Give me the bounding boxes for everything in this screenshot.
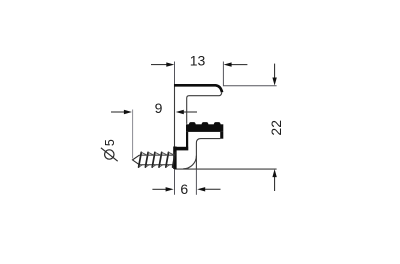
screw thread crest connectors top xyxy=(141,152,174,155)
screw body top edge xyxy=(139,154,174,156)
profile left wall outer edge xyxy=(174,84,176,169)
dimension 6 right line with arrow xyxy=(197,187,220,191)
dimension 22 bottom arrow (up) xyxy=(272,169,276,191)
screw thread crest connectors bottom xyxy=(139,164,171,167)
extension line top flange tip (vertical x=223.4) xyxy=(222,62,224,87)
gasket tooth 1 xyxy=(189,122,196,125)
profile top flange inner contour xyxy=(187,93,222,124)
profile bottom edge + extension to 22-dim (horizontal y=168.8) xyxy=(175,168,277,170)
dimension 13 right line with arrow xyxy=(224,62,248,66)
svg-text:13: 13 xyxy=(190,52,206,68)
gasket left stem xyxy=(186,132,188,147)
gasket tooth 2 xyxy=(202,122,209,125)
gasket top strip (thick) xyxy=(174,85,222,92)
dimension 9 right line with arrow xyxy=(176,110,197,114)
screw cone tip xyxy=(133,155,140,165)
gasket right lip xyxy=(220,132,223,139)
dimension 22 top arrow (down) xyxy=(272,64,276,86)
screw thread 1 xyxy=(139,152,142,167)
gasket serrated block xyxy=(186,124,223,132)
dimension 9 left line with arrow xyxy=(111,110,132,114)
screw thread 5 xyxy=(166,152,169,167)
screw thread 4 xyxy=(159,152,162,167)
svg-text:5: 5 xyxy=(103,139,117,146)
screw thread 6 xyxy=(173,152,176,167)
dimension 13 left line with arrow xyxy=(151,62,174,66)
label diameter 5: circle of diameter symbol xyxy=(105,150,114,159)
screw thread 3 xyxy=(152,152,155,167)
dimension 6 left line with arrow xyxy=(152,187,173,191)
label diameter 5: slash of diameter symbol xyxy=(101,148,118,161)
extension line hook inner lip (vertical x=196.4) xyxy=(195,169,197,195)
extension line left wall (vertical x=174.5) xyxy=(174,62,176,195)
profile lower hook inner contour xyxy=(196,139,220,169)
extension line top to 22-dim (horizontal y=85.7) xyxy=(223,85,276,87)
svg-text:6: 6 xyxy=(180,181,188,197)
profile root fillet arc xyxy=(183,156,196,169)
gasket tooth 3 xyxy=(214,122,221,125)
svg-text:9: 9 xyxy=(155,100,163,116)
screw body bottom edge xyxy=(139,164,174,166)
extension line screw tip (vertical x=132.6) xyxy=(132,110,134,159)
svg-text:22: 22 xyxy=(268,120,284,136)
screw thread 2 xyxy=(145,152,148,167)
gasket bottom bar xyxy=(174,147,188,151)
gasket wall bar xyxy=(173,147,176,170)
